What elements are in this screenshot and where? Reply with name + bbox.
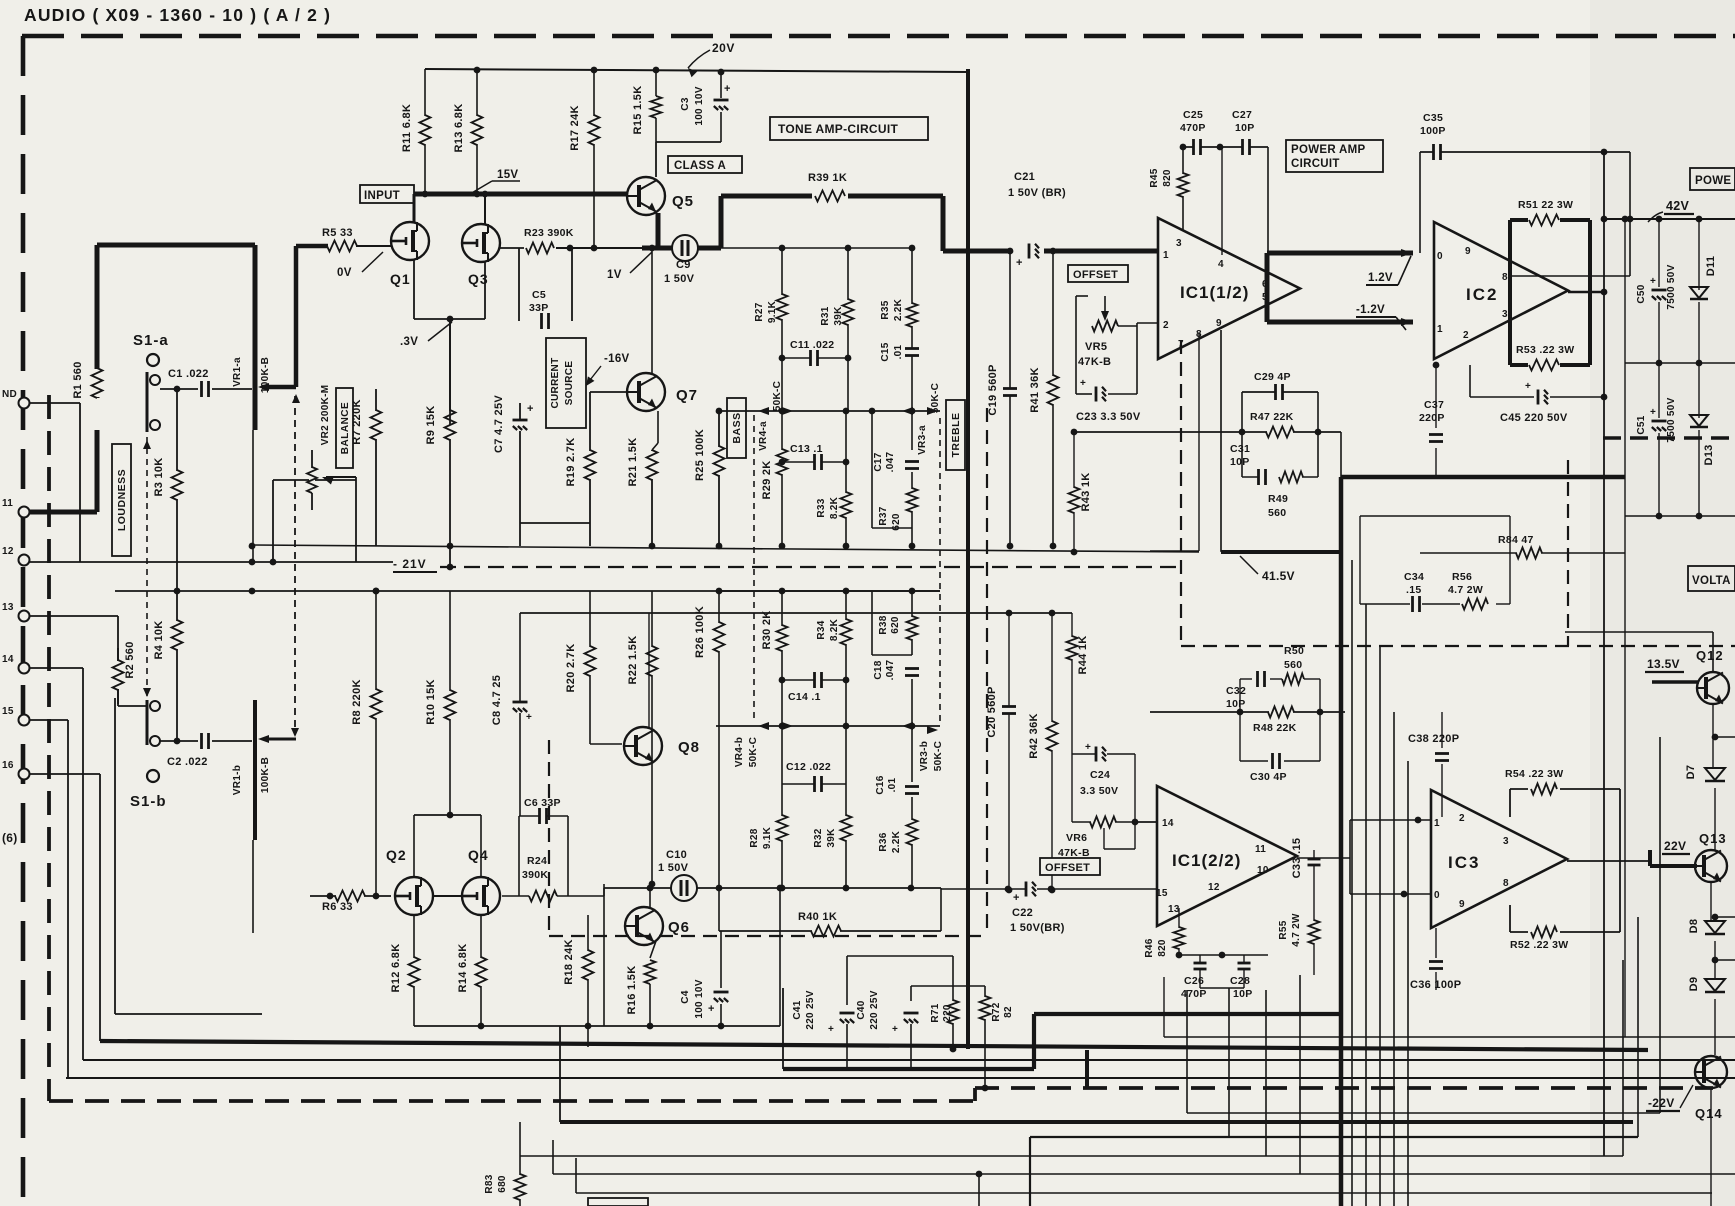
svg-text:C15: C15 [880,342,891,361]
wire long vertical thick [966,69,970,1049]
wire Q6 collector [647,885,654,907]
wire VR4 gang dashed [753,415,755,722]
svg-text:TONE AMP-CIRCUIT: TONE AMP-CIRCUIT [778,122,898,136]
resistor R21 [627,438,658,546]
wire lower signal [604,885,941,892]
svg-text:8.2K: 8.2K [829,496,840,519]
svg-text:C28: C28 [1230,975,1250,987]
svg-text:.01: .01 [887,777,898,792]
wire C4 bottom rail [603,888,605,1026]
svg-text:3.3 50V: 3.3 50V [1080,785,1118,797]
svg-text:R1 560: R1 560 [72,361,84,398]
label (6) [2,831,18,845]
svg-text:50K-C: 50K-C [930,383,941,413]
rail -21V dashed [440,564,1180,571]
resistor R7 [351,389,382,546]
svg-text:CIRCUIT: CIRCUIT [1291,158,1340,170]
wire Q8 leads [590,613,649,744]
svg-text:+: + [1013,892,1020,904]
border dashed left [21,36,26,1206]
bus lower 5 [576,1158,1712,1193]
svg-text:S1-b: S1-b [130,793,167,810]
rail tone common [252,543,1199,552]
svg-text:R47 22K: R47 22K [1250,411,1294,423]
label OFFSET box [1068,265,1128,282]
capacitor C30 [1240,712,1320,783]
transistor Q13 [1695,831,1727,882]
potentiometer VR6 [1058,817,1135,860]
svg-text:C27: C27 [1232,109,1252,121]
pot VR4-b arrows [758,722,793,730]
wire VR3 gang dashed [939,418,941,726]
wire tone-a wiper rail [716,408,940,415]
resistor R16 [626,941,656,1026]
svg-text:12: 12 [1208,882,1220,893]
bus right n1 [1187,737,1660,1113]
svg-text:220 25V: 220 25V [869,990,880,1029]
resistor R18 [563,915,594,1047]
resistor R35 [880,248,918,411]
svg-text:15V: 15V [497,169,518,181]
svg-text:R22 1.5K: R22 1.5K [627,636,639,685]
svg-text:R56: R56 [1452,571,1472,583]
wire S1-a thick box [97,245,255,512]
svg-text:R83: R83 [484,1174,495,1193]
svg-text:50K-C: 50K-C [772,381,783,411]
wire IC2 apex out [1568,289,1607,296]
svg-text:VR2 200K-M: VR2 200K-M [320,385,331,446]
capacitor C36 [1410,928,1461,991]
rail lower feed [115,588,940,595]
wire IC2 loop thick [1510,220,1590,365]
transistor Q6 [625,907,690,945]
svg-text:R40 1K: R40 1K [798,911,837,923]
capacitor C12 [782,726,846,792]
svg-text:VR1-a: VR1-a [232,357,243,387]
svg-text:14: 14 [1162,818,1174,829]
wire tone-a input rail [721,245,915,252]
wire switch S1a to C1 [160,388,198,390]
resistor R37 [878,472,918,549]
wire R12 R14 bottom [414,1023,780,1030]
svg-text:R48 22K: R48 22K [1253,722,1297,734]
pot VR4-a arrows [758,407,793,415]
svg-text:470P: 470P [1181,988,1207,1000]
svg-text:1 50V (BR): 1 50V (BR) [1008,187,1066,199]
wire pin2 [1137,322,1158,324]
scan shading right [1590,0,1735,1206]
bus thick main [100,1041,1648,1050]
svg-text:47K-B: 47K-B [1078,356,1111,368]
resistor R54 [1505,768,1563,795]
svg-text:C16: C16 [875,775,886,794]
wire terminal 14 [29,668,83,1060]
resistor R31 [820,248,854,411]
component box bottom [588,1198,648,1206]
transistor Q14 [1695,1056,1727,1121]
rail 42V [1601,216,1735,223]
svg-text:100K-B: 100K-B [260,757,271,793]
svg-text:1 50V: 1 50V [658,862,689,874]
svg-text:1 50V(BR): 1 50V(BR) [1010,922,1065,934]
resistor R8 [351,588,382,900]
svg-text:(6): (6) [2,831,18,845]
svg-text:VR3-b: VR3-b [919,741,930,771]
capacitor C26 [1181,955,1207,1000]
svg-text:+: + [708,1003,715,1015]
svg-text:8.2K: 8.2K [829,618,840,641]
label -21V [393,557,437,572]
svg-text:1.2V: 1.2V [1368,272,1393,284]
svg-text:BASS: BASS [731,412,743,443]
capacitor C14 [779,672,850,703]
svg-text:C13 .1: C13 .1 [790,443,823,455]
resistor R51 [1518,199,1573,226]
diode D11 [1690,219,1717,363]
transistor Q3 [462,224,500,287]
svg-text:R53 .22 3W: R53 .22 3W [1516,344,1574,356]
terminal t15 [2,706,30,726]
svg-text:CURRENT: CURRENT [550,358,561,409]
wire Q7 base [590,392,627,430]
terminal GND [2,389,30,409]
svg-text:4.7 2W: 4.7 2W [1448,584,1483,596]
capacitor C6 [519,797,568,896]
svg-text:C22: C22 [1012,907,1033,919]
border dashed top [22,34,1735,39]
svg-text:R16 1.5K: R16 1.5K [626,966,638,1015]
wire R50 box [1240,679,1320,712]
svg-text:+: + [1525,381,1531,392]
svg-text:+: + [526,712,532,723]
label TONE AMP box [770,117,928,140]
svg-text:+: + [1085,742,1091,753]
svg-text:C1 .022: C1 .022 [168,368,209,380]
terminal t12 [2,546,30,566]
resistor R33 [816,411,852,549]
svg-text:390K: 390K [522,869,548,881]
resistor R56 [1448,571,1488,610]
svg-text:Q8: Q8 [678,739,700,756]
svg-text:R34: R34 [816,620,827,639]
wire IC2 pin8 [1512,216,1633,276]
svg-text:R32: R32 [813,828,824,847]
resistor R25 [694,408,725,550]
svg-text:C45 220 50V: C45 220 50V [1500,412,1568,424]
svg-text:R9 15K: R9 15K [425,405,437,444]
label VR3-b [919,741,944,771]
wire x1604 long [1601,149,1608,1156]
svg-text:C7 4.7 25V: C7 4.7 25V [493,395,505,453]
resistor R24 [522,855,557,902]
resistor R84 [1498,534,1542,559]
svg-text:R55: R55 [1278,920,1289,939]
diode D8 [1688,882,1735,979]
svg-text:VR4-b: VR4-b [734,737,745,767]
svg-text:C41: C41 [792,1000,803,1019]
resistor R41 [1029,248,1059,550]
label VOLTAGE box [1688,566,1735,591]
svg-text:8: 8 [1503,878,1509,889]
capacitor C23 [1076,323,1137,402]
diode D13 [1690,363,1715,516]
svg-text:C40: C40 [856,1000,867,1019]
svg-text:Q7: Q7 [676,387,698,404]
wire C22 rail [941,886,1157,893]
capacitor C25 [1180,109,1206,155]
capacitor C38 [1408,712,1459,817]
resistor R38 [878,591,918,655]
svg-text:10P: 10P [1230,456,1250,468]
capacitor C9 round [664,235,698,285]
wire R24 right [557,884,604,896]
svg-text:560: 560 [1284,659,1302,671]
resistor R17 [569,67,600,252]
svg-text:+: + [892,1024,898,1035]
capacitor C3 [680,69,731,142]
svg-text:R38: R38 [878,615,889,634]
wire terminal 15 [29,720,68,1078]
wire S1b to C2 [160,738,198,745]
label OFFSET box lower [1040,858,1100,875]
rail mid 0V [1625,360,1735,367]
transistor Q2 [386,847,433,915]
label VR4-a [758,381,783,451]
label 41.5V [1240,556,1295,583]
svg-text:1: 1 [1434,818,1440,829]
capacitor C2 [167,733,210,768]
svg-text:R10 15K: R10 15K [425,679,437,725]
svg-text:.01: .01 [893,344,904,359]
svg-text:100 10V: 100 10V [694,979,705,1018]
svg-text:C31: C31 [1230,443,1250,455]
capacitor C41 [792,990,855,1035]
svg-text:10P: 10P [1233,988,1253,1000]
svg-text:IC1(2/2): IC1(2/2) [1172,851,1241,870]
svg-text:C37: C37 [1424,399,1444,411]
label 20V [688,41,735,77]
label BALANCE box [336,388,353,468]
wire y613 lower rail [520,610,1072,617]
svg-text:-1.2V: -1.2V [1356,304,1385,316]
wire 41.5 thick short [1221,550,1341,554]
svg-text:R84 47: R84 47 [1498,534,1534,546]
resistor R22 [627,591,658,887]
svg-text:C29 4P: C29 4P [1254,371,1291,383]
capacitor C24 [1072,742,1135,822]
capacitor C50 [1636,219,1677,363]
svg-text:R23 390K: R23 390K [524,227,574,239]
svg-text:R41 36K: R41 36K [1029,367,1041,413]
svg-text:Q1: Q1 [390,271,411,287]
svg-text:0: 0 [1437,251,1443,262]
wire Q5 emitter thick [656,213,661,248]
svg-text:10P: 10P [1235,122,1255,134]
wire C2 to VR1-b [212,740,252,742]
boundary bottom dashed [49,395,1713,1101]
title text [24,5,331,25]
wire IC3 in1 [1350,817,1431,824]
svg-text:R8 220K: R8 220K [351,679,363,725]
resistor R10 [425,591,456,815]
pot VR3-a arrows [902,407,938,415]
svg-text:3: 3 [1503,836,1509,847]
capacitor C33 [1291,838,1321,880]
resistor R47 [1250,411,1294,438]
svg-text:R39 1K: R39 1K [808,172,847,184]
transistor Q7 [627,373,698,411]
resistor R20 [565,591,596,744]
svg-text:C21: C21 [1014,171,1035,183]
svg-text:.3V: .3V [400,336,418,348]
svg-text:C8 4.7 25: C8 4.7 25 [491,675,503,725]
capacitor C32 [1226,671,1266,710]
wire terminal 11 thick [29,510,97,515]
svg-text:R17 24K: R17 24K [569,105,581,151]
wire terminal 13 [29,616,118,704]
svg-text:-16V: -16V [604,353,630,365]
svg-text:R36: R36 [878,832,889,851]
capacitor C1 [168,368,210,397]
svg-text:BALANCE: BALANCE [340,402,351,454]
wire Q3 gate to R23 [500,247,524,249]
svg-text:OFFSET: OFFSET [1073,269,1118,281]
svg-text:AUDIO ( X09 - 1360 - 10 ) ( A: AUDIO ( X09 - 1360 - 10 ) ( A / 2 ) [24,5,331,25]
resistor R71 [930,1000,959,1052]
label LOUDNESS box [112,444,131,556]
capacitor C8 [491,613,532,816]
svg-text:C30 4P: C30 4P [1250,771,1287,783]
svg-text:16: 16 [2,760,14,771]
capacitor C45 [1470,365,1607,424]
svg-text:R45: R45 [1149,168,1160,187]
svg-text:15: 15 [2,706,14,717]
wire 41.5V thick rail [1341,477,1625,1206]
wire IC3 loop top [1510,789,1620,932]
svg-text:Q5: Q5 [672,193,694,210]
svg-text:1V: 1V [607,269,622,281]
svg-text:SOURCE: SOURCE [564,361,575,406]
svg-text:R72: R72 [991,1002,1002,1021]
capacitor C34 [1378,571,1460,612]
resistor R11 [401,69,431,197]
svg-text:R28: R28 [749,828,760,847]
resistor R50 [1282,645,1304,685]
pin labels IC2 [1437,246,1508,341]
svg-text:ND: ND [2,389,17,400]
svg-text:R27: R27 [754,302,765,321]
svg-text:3: 3 [1502,309,1508,320]
label CLASS A box [668,156,742,173]
resistor R42 [1028,613,1058,893]
wire C25 C27 rail [1180,144,1268,255]
wire loudness dashed link [143,437,151,700]
svg-text:+: + [724,83,731,95]
wire x1625 [1622,216,1629,363]
svg-text:.15: .15 [1406,584,1422,596]
wire pin8 pin9 down [1199,330,1221,551]
wire C34 box [1360,516,1510,604]
label TREBLE box [946,400,965,470]
pin labels IC1a [1163,238,1268,350]
svg-text:220 25V: 220 25V [805,990,816,1029]
svg-text:2.2K: 2.2K [891,830,902,853]
svg-text:R4 10K: R4 10K [153,620,165,659]
label POWER box [1690,168,1735,190]
svg-text:100 10V: 100 10V [694,86,705,125]
svg-text:R29 2K: R29 2K [761,460,773,499]
terminal t13 [2,602,30,622]
svg-text:R31: R31 [820,306,831,325]
wire IC3 out [1567,860,1650,862]
arrow IC2 in1 [1401,318,1413,326]
op-amp IC1(2/2) [1157,786,1297,926]
bus lower 3 [520,1155,1623,1157]
capacitor C10 round [658,849,697,901]
bus line3 [83,1059,1735,1061]
wire C35 rail [1420,152,1630,276]
wire R23 to C9 [556,245,642,252]
svg-text:R21 1.5K: R21 1.5K [627,438,639,487]
label -1.2V [1356,304,1406,330]
svg-text:9: 9 [1216,318,1222,329]
svg-text:C36 100P: C36 100P [1410,979,1461,991]
svg-text:1: 1 [1163,250,1169,261]
svg-text:0V: 0V [337,267,352,279]
switch S1-b [130,700,167,810]
bus lower thick [560,1026,1633,1122]
wire R40 rail [719,888,941,931]
capacitor C11 [779,339,852,366]
wire Q7 emitter [652,411,658,450]
svg-text:R44 1K: R44 1K [1077,635,1089,674]
wire Q12 collector [1565,632,1713,672]
resistor R48 [1253,707,1297,735]
svg-text:2.2K: 2.2K [893,298,904,321]
wire x1625 lower [1624,363,1626,1037]
terminal t14 [2,654,30,674]
wire right chain [1710,1088,1712,1206]
svg-text:13: 13 [2,602,14,613]
svg-text:13: 13 [1168,904,1180,915]
svg-text:4.7 2W: 4.7 2W [1291,913,1302,947]
capacitor C13 [779,443,850,470]
svg-text:IC3: IC3 [1448,853,1480,872]
svg-text:82: 82 [1003,1006,1014,1018]
svg-text:S1-a: S1-a [133,332,169,349]
wire Q3 top [482,191,489,224]
capacitor C40 [856,990,919,1035]
capacitor C22 [1010,882,1065,935]
resistor R9 [425,319,456,567]
resistor R26 [694,588,725,931]
resistor R23 [524,227,574,254]
resistor R4 [153,560,183,741]
svg-text:C32: C32 [1226,685,1246,697]
label -22V [1646,1085,1693,1111]
rail lower supply [1625,513,1735,520]
arrow IC2 in0 [1401,249,1413,257]
svg-text:R18 24K: R18 24K [563,939,575,985]
wire Q2 Q4 join [433,895,462,897]
potentiometer VR1-a [232,245,296,562]
potentiometer VR1-b [232,700,296,933]
wire Q13 base thick [1650,850,1697,866]
wire lower out [777,885,953,1069]
svg-text:10P: 10P [1226,698,1246,710]
resistor R34 [816,591,852,726]
label BASS box [727,398,746,458]
